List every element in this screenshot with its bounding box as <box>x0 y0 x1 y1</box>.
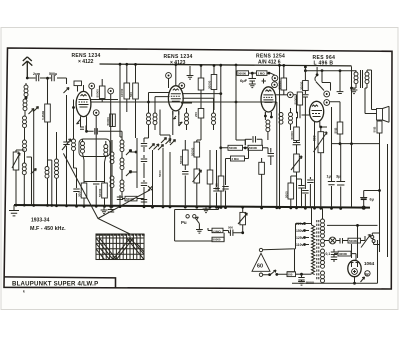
grid cap resistor V1 <box>74 81 82 86</box>
bypass capacitor V1 cathode <box>76 185 78 206</box>
resistor 50000 psu <box>348 238 361 243</box>
decoupling junction <box>249 72 257 74</box>
wire x=137 <box>131 138 138 188</box>
tube V2 RENS1234 mixer <box>168 86 183 115</box>
svg-text:50000: 50000 <box>277 81 281 90</box>
switch arrows cluster wave change <box>161 138 167 144</box>
tone pot below bus <box>242 207 244 212</box>
coil L4 <box>23 140 27 152</box>
secondary winding 2 <box>321 239 325 247</box>
secondary winding 3 <box>321 249 325 261</box>
triangle pickup 60 <box>252 253 270 271</box>
IF transformer can (rounded box) <box>79 139 110 157</box>
resistor 50000 horizontal near bus <box>125 196 137 201</box>
V2 cathode legs <box>173 111 183 135</box>
speaker <box>377 109 383 121</box>
resistor 50000 x=197 <box>194 142 200 157</box>
PSU box bottom <box>292 240 378 283</box>
coil under V3 <box>266 120 270 132</box>
osc tube coils left <box>147 113 151 125</box>
V2 osc coils middle <box>185 113 189 125</box>
padding cap 1 <box>143 138 145 152</box>
coupling cap 5000 <box>245 138 252 140</box>
svg-text:125v: 125v <box>296 236 304 240</box>
OT core <box>361 70 363 88</box>
cap 3uF x=340.7 <box>340 144 342 209</box>
wire x=352 to bus <box>351 144 353 208</box>
divider resistor 5000 <box>290 176 292 183</box>
cap x=216 <box>216 150 218 207</box>
anode wire V1 up <box>83 85 85 91</box>
svg-text:0,1: 0,1 <box>326 252 331 256</box>
grid resistor 50000 horizontal <box>236 65 237 73</box>
svg-text:150v: 150v <box>296 229 304 233</box>
ground bus <box>14 205 370 208</box>
trimmer drop wire <box>152 150 154 207</box>
terminal circle screen V1 <box>108 88 114 94</box>
svg-text:0,3MΩ: 0,3MΩ <box>41 110 45 120</box>
rectifier tube 1064 <box>348 260 361 276</box>
coil L5 <box>22 163 26 175</box>
mains taps <box>303 222 306 225</box>
svg-text:W: W <box>365 272 369 276</box>
svg-text:110v: 110v <box>296 243 303 247</box>
wire pot top <box>16 149 25 151</box>
svg-text:30000: 30000 <box>339 252 347 256</box>
detector bypass caps <box>293 143 301 155</box>
svg-text:50000: 50000 <box>238 71 246 75</box>
antenna coil L2 <box>23 99 27 111</box>
anode V2 up to rail <box>175 65 177 86</box>
left column wire to grid <box>73 100 75 140</box>
svg-text:500μ: 500μ <box>49 72 57 76</box>
Pu phono input loop <box>175 207 225 241</box>
coil L3 <box>23 116 27 128</box>
wires below IF can <box>84 160 105 183</box>
pot 600 output <box>320 127 322 132</box>
V1 heater drop <box>95 116 97 207</box>
svg-text:50000: 50000 <box>126 197 134 201</box>
fuse resistor <box>287 272 296 277</box>
terminal circle V3 mid <box>272 82 278 88</box>
capacitor 500 <box>52 75 55 81</box>
svg-text:1064: 1064 <box>364 261 375 266</box>
svg-text:5000: 5000 <box>284 191 288 198</box>
psu caps 0,1uF <box>333 249 335 262</box>
potentiometer volume antenna <box>15 150 17 205</box>
V4 leg resistor x=341 <box>339 71 341 92</box>
padding cap 3 <box>143 180 145 198</box>
resistor 30000 psu <box>338 251 351 256</box>
wire x=236 rail to row <box>236 73 245 145</box>
screen resistor V2 <box>198 78 204 90</box>
svg-text:60: 60 <box>257 264 263 270</box>
tap feed line <box>287 249 295 272</box>
mains on-off switch <box>361 235 371 248</box>
svg-text:50000: 50000 <box>349 239 357 243</box>
band switch arrow 1 <box>126 150 132 156</box>
stub cap x=310 <box>309 177 311 208</box>
svg-text:50000: 50000 <box>229 146 237 150</box>
wire to mains taps <box>263 224 305 250</box>
trimmer arrows <box>149 144 155 150</box>
terminal circle V3 top <box>272 75 278 81</box>
Pu ground <box>198 224 200 230</box>
svg-text:2cm: 2cm <box>33 72 40 76</box>
transformer core dashed <box>317 220 319 280</box>
resistor 0,3M <box>47 78 49 205</box>
OT primary coil <box>351 66 353 143</box>
coil L6 oscillator <box>56 132 58 159</box>
svg-text:M.F - 450 kHz.: M.F - 450 kHz. <box>30 226 66 232</box>
svg-text:k: k <box>23 290 25 294</box>
svg-text:2 MΩ: 2 MΩ <box>232 157 240 161</box>
svg-text:50000: 50000 <box>213 238 221 242</box>
caps near bus x=144 <box>143 198 145 207</box>
Pu switch <box>195 217 199 224</box>
heater cap <box>340 238 348 244</box>
terminal circle Fu V2 <box>166 73 172 79</box>
resistor x=221 to bus <box>220 148 222 176</box>
anode resistor 50000 vertical <box>283 65 285 78</box>
cathode bars V1 <box>80 126 86 132</box>
below-bus ground stub <box>103 207 105 210</box>
wire antenna feed <box>27 78 66 84</box>
svg-text:50000: 50000 <box>96 89 100 98</box>
IF2 coil left column <box>212 113 216 125</box>
secondary winding 4 <box>321 271 325 283</box>
svg-text:3μ: 3μ <box>336 175 341 179</box>
screen drop to bus <box>111 94 113 207</box>
terminal circle V4 grid <box>324 91 330 97</box>
rail drop resistor 10000 <box>126 64 128 83</box>
rectifier anode wires <box>354 277 356 284</box>
IF2 resistor row: 50000 <box>228 145 243 150</box>
grid clip contact V4 <box>315 67 324 91</box>
tone cap 500 <box>229 230 243 236</box>
electrolytic 6uF at bus end <box>362 206 366 210</box>
switch antenna tap <box>29 109 35 115</box>
HT supply rail <box>100 64 352 66</box>
V4 legs <box>315 121 328 131</box>
V1 cathode legs to ground <box>81 117 123 132</box>
IF2 resistor 50000 b <box>248 145 263 150</box>
screen feed vertical x=279.5 <box>279 65 281 208</box>
svg-text:500: 500 <box>288 273 293 277</box>
grid stopper mark <box>262 79 267 84</box>
HV secondary feed <box>327 224 378 226</box>
padding cap 2 <box>143 155 145 178</box>
volume pot 0.4M <box>294 154 300 172</box>
detector load resistor <box>294 127 300 141</box>
mains transformer primary zigzag <box>311 208 313 225</box>
wire x=163 to bus <box>162 148 164 207</box>
svg-text:1μ: 1μ <box>327 175 332 179</box>
svg-text:0,5MΩ: 0,5MΩ <box>212 230 221 234</box>
V3 legs <box>265 112 271 120</box>
AVC cap <box>270 148 272 162</box>
capacitor 2cm <box>36 75 39 81</box>
svg-text:A/N 412 6: A/N 412 6 <box>258 59 281 65</box>
RC to ground <box>301 274 303 277</box>
value labels inside horizontal boxes <box>126 71 357 276</box>
svg-text:10000: 10000 <box>120 88 124 97</box>
svg-text:200: 200 <box>194 112 198 117</box>
svg-text:50000: 50000 <box>290 131 294 140</box>
resistor 30000 x=210 <box>209 150 211 170</box>
terminal circle V2 screen <box>179 83 185 89</box>
switch arrow antenna <box>66 95 68 135</box>
ground stub top V2 <box>189 66 191 76</box>
svg-text:1 MΩ: 1 MΩ <box>258 71 266 75</box>
variable capacitor tuning C1 <box>66 135 68 206</box>
svg-text:1933-34: 1933-34 <box>31 218 50 224</box>
rail drop resistor 500 <box>135 64 137 83</box>
tube V3 RENS1254 <box>261 87 276 116</box>
band coil column x=122 <box>120 140 124 152</box>
speaker wires <box>365 70 377 114</box>
Pu terminals <box>186 215 189 218</box>
schematic frame border <box>4 48 392 289</box>
antenna <box>22 57 32 78</box>
terminal circle V4 cath <box>324 100 330 106</box>
resistor 2M horizontal <box>231 156 245 161</box>
IF coil secondary <box>104 145 108 157</box>
IF coil primary <box>81 142 85 154</box>
resistor 50000 <box>102 183 108 198</box>
HT horizontal y=143.7 <box>332 144 380 252</box>
wire x=268 grid row down <box>268 148 271 165</box>
svg-text:Pu: Pu <box>181 220 187 225</box>
pilot lamp <box>329 237 336 244</box>
speaker humbucking resistor <box>379 120 381 121</box>
wire x=305 to bus <box>304 130 306 208</box>
resistor 300 <box>84 182 105 184</box>
rail drop x=220 <box>220 65 222 148</box>
tone resistor 1 <box>212 228 223 233</box>
cap 5000 x=187 <box>184 168 186 207</box>
capacitor 6uF to ground <box>251 73 253 84</box>
antenna coil L1 <box>25 83 27 85</box>
mains switch low <box>263 270 287 275</box>
triangle bottom terminal <box>259 273 262 276</box>
svg-text:50Ω: 50Ω <box>373 126 377 132</box>
AVC resistor 50000 upper <box>299 91 301 93</box>
det bypass cap 2 <box>301 179 303 208</box>
screen resistor V1 <box>99 86 105 99</box>
mixer grid coil <box>153 113 157 125</box>
band switch arrow 2 <box>126 171 132 177</box>
terminal circle Fu V1 <box>89 83 95 89</box>
wire x=170 to bus <box>169 152 171 207</box>
svg-text:30000: 30000 <box>208 80 212 89</box>
ground symbol bus left end <box>13 205 15 210</box>
value labels (rotated resistor values) <box>41 80 377 198</box>
svg-text:6μF: 6μF <box>240 78 248 83</box>
rail drop x=120 <box>120 64 122 137</box>
coupling coil left <box>110 152 114 164</box>
detector coupling cap <box>297 104 301 117</box>
svg-text:500: 500 <box>129 92 133 97</box>
svg-text:50000: 50000 <box>293 96 297 105</box>
triangle top terminal <box>259 248 262 251</box>
grid resistor 1M horizontal <box>257 71 268 76</box>
svg-text:50000: 50000 <box>249 146 257 150</box>
wire x=225.5 <box>225 159 227 208</box>
svg-text:30000: 30000 <box>300 81 304 90</box>
svg-text:5000: 5000 <box>215 183 219 190</box>
rail stub x=322 down <box>322 71 331 91</box>
switch arm mid <box>33 107 39 113</box>
OT secondary coil <box>366 70 368 72</box>
V4 grid wire <box>302 114 310 116</box>
svg-text:× 4122: × 4122 <box>78 59 94 65</box>
svg-text:50000: 50000 <box>179 155 183 164</box>
arrow to W <box>361 277 365 282</box>
right inner vertical <box>387 144 389 257</box>
below-bus cap stub <box>110 207 112 209</box>
screen cap V4 <box>302 95 308 130</box>
grid resistor 30000 V4 <box>304 71 306 81</box>
IF2 coils right <box>279 113 283 125</box>
terminal circle Fu2 V1 <box>93 110 99 116</box>
ground stub under bus x=206 <box>205 207 207 209</box>
tone resistor 2 <box>212 237 224 242</box>
tube V1 RENS1234 <box>76 91 91 120</box>
rail junction dot x=236 <box>235 64 238 67</box>
svg-text:50000: 50000 <box>190 147 194 156</box>
tube V4 RES964 <box>310 101 324 122</box>
potentiometer x=196 <box>194 169 200 183</box>
resistor 50000 x=185 <box>183 150 189 165</box>
grid wires V1 <box>91 100 277 208</box>
svg-text:50000: 50000 <box>98 188 102 197</box>
svg-text:50000: 50000 <box>106 117 110 126</box>
svg-text:50Ω: 50Ω <box>334 127 338 133</box>
circle W term <box>365 271 370 276</box>
anode feed wire B y=70.6 <box>305 70 356 72</box>
band switch table <box>96 234 145 260</box>
svg-text:300: 300 <box>77 192 81 197</box>
svg-text:220v: 220v <box>296 222 304 226</box>
caps near bus x=120 <box>119 195 121 207</box>
cap 1uF x=331.5 <box>331 107 333 208</box>
secondary winding 1 <box>322 208 324 219</box>
svg-text:500: 500 <box>228 226 233 230</box>
title box <box>4 277 115 288</box>
V2 grid wires <box>149 93 221 136</box>
screen dropper resistor x=214 <box>213 66 215 75</box>
terminal circle V3 anode <box>276 94 288 96</box>
svg-text:6μ: 6μ <box>370 198 375 202</box>
gang line diagonal <box>63 153 150 234</box>
svg-text:BLAUPUNKT SUPER 4/LW.P: BLAUPUNKT SUPER 4/LW.P <box>12 281 98 288</box>
svg-text:5000: 5000 <box>158 170 162 177</box>
AVC resistor box <box>259 162 265 174</box>
wire x=51.8 <box>48 160 52 205</box>
wire x=314 to bus <box>314 131 316 208</box>
